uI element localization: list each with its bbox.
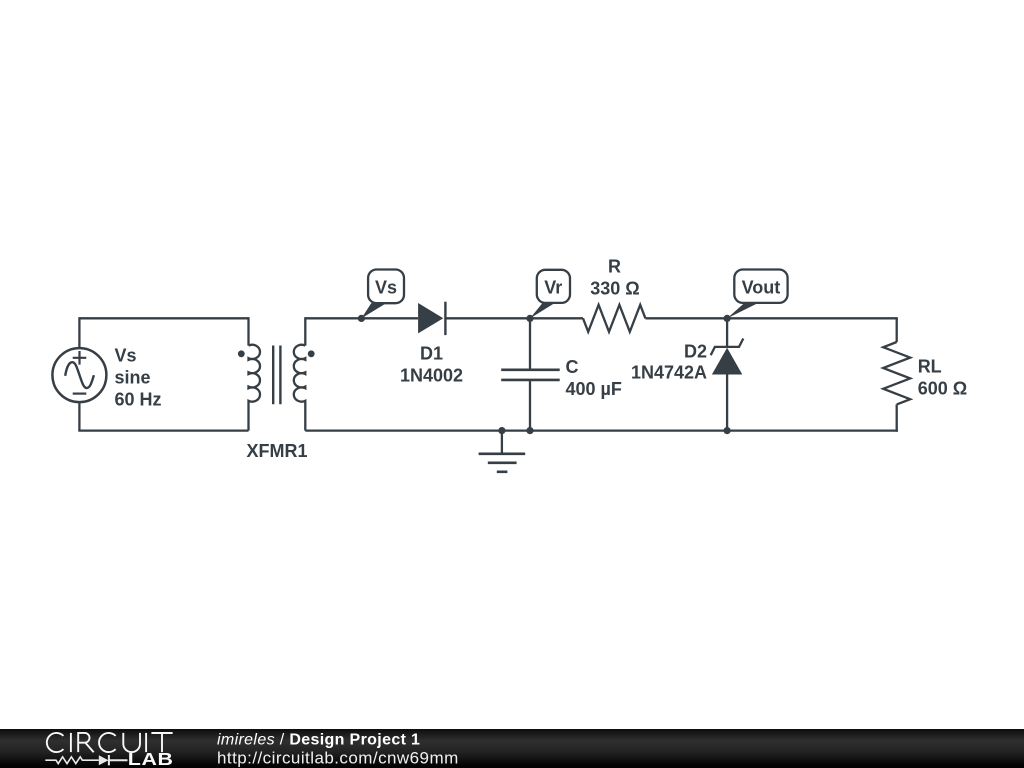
transformer XFMR1 secondary lead top <box>304 317 306 345</box>
flag Vs pointer <box>361 303 386 318</box>
voltage source minus sign <box>73 393 87 395</box>
resistor R zigzag <box>583 305 645 332</box>
diode D1 triangle <box>418 303 443 333</box>
node dot Vout <box>724 315 731 322</box>
wire left vertical below source <box>78 403 80 430</box>
capacitor C top plate <box>501 368 560 371</box>
ground bar 3 <box>497 470 508 473</box>
flag Vout pointer <box>727 303 758 319</box>
wire right vertical below RL <box>896 404 898 431</box>
transformer XFMR1 core lines <box>273 346 280 405</box>
flag Vr box <box>537 270 570 303</box>
capacitor C bottom plate <box>501 379 560 382</box>
wire bottom rail of source loop <box>78 429 248 431</box>
node dot ground <box>498 427 505 434</box>
capacitor C bottom wire <box>529 380 531 431</box>
transformer primary phase dot <box>238 350 245 357</box>
logo letter I <box>70 733 72 752</box>
voltage source V1 circle <box>52 348 106 402</box>
logo letter R <box>78 733 94 752</box>
svg-text:http://circuitlab.com/cnw69mm: http://circuitlab.com/cnw69mm <box>217 749 459 768</box>
logo letter U <box>123 733 140 752</box>
capacitor C top wire <box>529 318 531 370</box>
logo diode bar and wire <box>109 755 128 765</box>
voltage source sine symbol <box>65 362 94 388</box>
zener D2 cathode bar with hooks <box>711 339 744 356</box>
transformer XFMR1 primary lead bottom <box>247 403 249 431</box>
wire right vertical above RL <box>896 318 898 342</box>
transformer XFMR1 secondary winding <box>294 345 306 403</box>
logo resistor zigzag <box>45 757 99 764</box>
logo diode triangle <box>99 755 109 765</box>
resistor RL zigzag <box>883 342 910 404</box>
svg-text:LAB: LAB <box>128 750 174 768</box>
node dot zener bottom <box>724 427 731 434</box>
zener D2 top wire <box>726 318 728 347</box>
flag Vr pointer <box>530 303 555 319</box>
svg-text:imireles / Design Project 1: imireles / Design Project 1 <box>217 731 420 748</box>
zener D2 bottom wire <box>726 375 728 431</box>
wire left vertical above source <box>78 317 80 347</box>
voltage source plus sign <box>73 351 87 365</box>
wire top rail from diode D1 to resistor R <box>445 317 583 319</box>
logo letter C <box>47 733 64 752</box>
logo letter T <box>151 733 172 752</box>
logo letter C <box>99 733 116 752</box>
transformer XFMR1 primary lead top <box>247 317 249 345</box>
node dot Vs <box>358 315 365 322</box>
transformer XFMR1 secondary lead bottom <box>304 403 306 431</box>
transformer XFMR1 primary winding <box>249 345 261 403</box>
ground bar 2 <box>488 461 517 464</box>
node dot capacitor bottom <box>526 427 533 434</box>
ground bar 1 <box>479 452 526 455</box>
flag Vout box <box>734 270 787 303</box>
flag Vs box <box>368 270 404 304</box>
logo letter I <box>145 733 147 752</box>
wire bottom rail right section <box>305 429 898 431</box>
zener D2 triangle <box>712 348 742 375</box>
ground stub wire <box>501 431 503 454</box>
node dot Vr <box>526 315 533 322</box>
footer bar <box>0 729 1024 768</box>
wire top rail from resistor R to right corner <box>645 317 897 319</box>
transformer secondary phase dot <box>308 350 315 357</box>
diode D1 cathode bar <box>444 302 446 335</box>
wire top rail from transformer to diode D1 <box>305 317 418 319</box>
wire top rail of source loop <box>79 317 248 319</box>
